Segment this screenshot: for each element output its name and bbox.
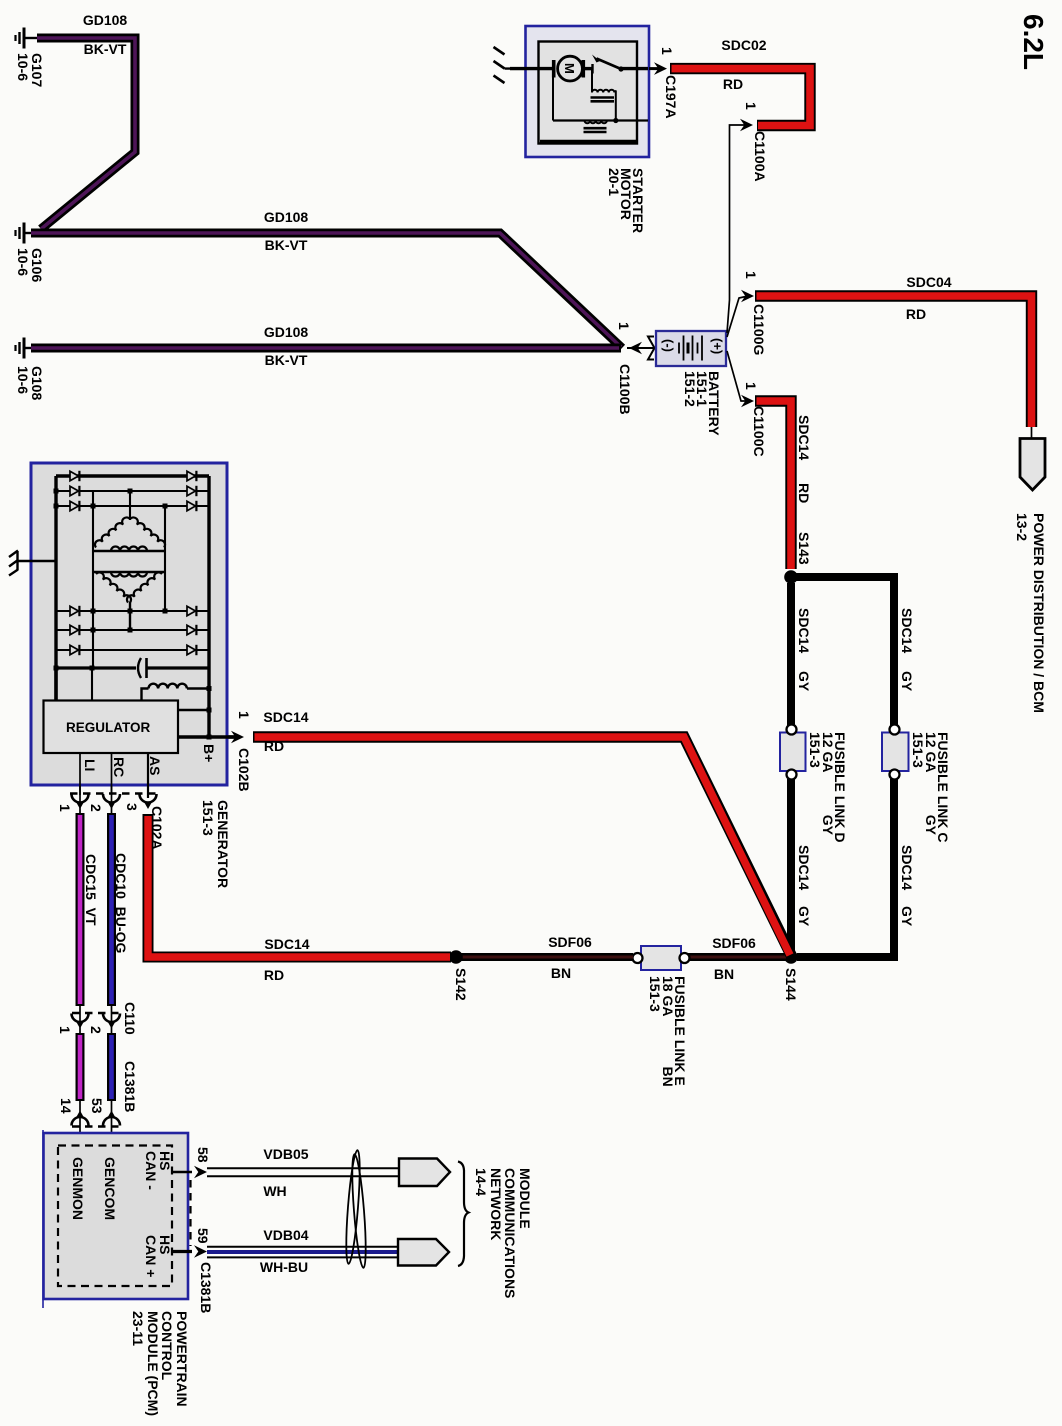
label pin 53 <box>90 1098 103 1114</box>
thin lead battery to C1100G <box>727 296 748 337</box>
label battery minus <box>662 339 675 352</box>
wire VT C110 to PCM <box>76 1033 85 1101</box>
label LI <box>83 759 96 771</box>
label SDC14 GY left lower <box>797 845 810 890</box>
ground G107 <box>16 28 39 49</box>
regulator U1 <box>44 701 179 754</box>
label FUSIBLE LINK D <box>809 732 846 842</box>
connector C1100A arrow <box>740 119 753 132</box>
powertrain control module PCM box <box>44 1133 189 1299</box>
label STARTER MOTOR 20-1 <box>607 168 644 233</box>
label C1100B <box>618 364 631 415</box>
label B+ <box>202 744 215 762</box>
label VDB04 <box>263 1229 308 1242</box>
label 1 at C1100B <box>617 322 630 330</box>
label FUSIBLE LINK C <box>912 732 949 842</box>
PCM inner dashed box <box>58 1146 172 1287</box>
label BK-VT wire 1 <box>84 43 127 56</box>
label pin 2 C102A <box>89 804 102 812</box>
fusible link E <box>633 946 690 970</box>
starter motor box <box>526 26 650 157</box>
label S142 <box>454 968 467 1001</box>
label pin 1 C102A <box>58 804 71 812</box>
fusible link C <box>882 725 909 780</box>
wire SDC04 RD <box>755 296 1032 427</box>
label battery plus <box>711 338 724 354</box>
label REGULATOR <box>66 721 150 734</box>
label GD108 wire 2 <box>264 211 308 224</box>
label BATTERY 151-1 151-2 <box>683 371 720 436</box>
label RD lower red <box>264 969 284 982</box>
label SDC04 <box>906 276 951 289</box>
wire SDC02 RD <box>670 69 810 126</box>
label SDC14 GY right lower <box>900 845 913 890</box>
splice S144 <box>784 950 798 964</box>
wire SDC14 RD from C1100C to S143 <box>755 401 791 569</box>
label SDC14 GY left upper <box>797 608 810 653</box>
label C1381B left <box>123 1061 136 1112</box>
label S143 <box>797 532 810 565</box>
battery <box>656 331 726 366</box>
label GENERATOR 151-3 <box>200 800 230 888</box>
label BN right <box>714 968 734 981</box>
label HS CAN - <box>144 1151 172 1190</box>
diode row 1 <box>56 474 209 478</box>
wire CDC15 VT pin1 <box>76 813 85 1006</box>
label 59 <box>196 1228 209 1244</box>
splice S142 <box>449 950 463 964</box>
fusible link D <box>780 725 806 780</box>
label C102B <box>237 748 250 792</box>
label FUSIBLE LINK E <box>649 976 686 1087</box>
label CDC15 VT <box>84 854 97 926</box>
label S144 <box>784 968 797 1001</box>
connector C1100B arrow <box>627 337 655 360</box>
label WH-BU <box>260 1261 308 1274</box>
label VDB05 <box>263 1148 308 1161</box>
vertical feeds to regulator <box>54 668 57 701</box>
label SDF06 right <box>712 937 756 950</box>
label C110 <box>123 1002 136 1035</box>
label RD vertical red <box>797 483 810 503</box>
delta winding 2 <box>93 571 165 573</box>
PCM pin 58 HS CAN - output <box>172 1166 207 1179</box>
label 1 at C1100A <box>744 102 757 110</box>
label WH <box>263 1185 286 1198</box>
pentagon connector VDB05 <box>399 1159 450 1187</box>
wire BU C110 to PCM <box>107 1033 116 1101</box>
label C1100G <box>752 304 765 355</box>
wire SDC14 GY S143 to fusible link D <box>787 583 795 727</box>
lower left diodes <box>70 606 79 616</box>
label AS <box>148 756 161 775</box>
wire SDC14 GY S143 to fusible link C <box>794 577 894 727</box>
label pin 3 C102A <box>125 803 138 811</box>
label SDC14 B+ wire <box>263 711 308 724</box>
label SDC14 lower red <box>264 938 309 951</box>
connector C102A dashed line and clips <box>70 786 160 814</box>
lead to power distribution connector <box>1031 427 1033 439</box>
right bus <box>207 476 210 737</box>
label pin 1 C110 <box>58 1026 71 1034</box>
label G107 <box>16 53 44 87</box>
regulator to bus link <box>178 709 209 711</box>
connector C1100G arrow <box>741 290 754 303</box>
label pin 2 C110 <box>89 1026 102 1034</box>
connector C1381B dashed line <box>189 1180 191 1246</box>
label POWERTRAIN CONTROL MODULE <box>131 1311 189 1416</box>
wire SDC14 RD C102A to S142 <box>148 814 451 957</box>
wire VDB05 WH twisted pair <box>207 1168 399 1176</box>
label 6.2L <box>1020 14 1046 70</box>
delta winding 1 <box>130 517 165 547</box>
hash marks left of starter motor <box>494 47 527 83</box>
label G108 <box>16 366 44 400</box>
ground G108 <box>16 338 39 359</box>
label M starter motor <box>563 63 576 74</box>
diode row 3 <box>56 505 209 507</box>
label GENMON <box>71 1157 84 1220</box>
B+ output line and connector C102B arrow <box>178 731 244 744</box>
label 58 <box>196 1147 209 1163</box>
connector C197A arrow <box>649 62 667 75</box>
wire GD108 BK-VT from G108 to C1100B <box>31 344 621 353</box>
label G106 <box>16 248 44 282</box>
wire SDC14 RD generator B+ to S144 <box>253 737 791 955</box>
ground G106 <box>16 223 39 244</box>
brace module communications network <box>458 1162 469 1267</box>
splice S143 <box>784 570 798 584</box>
label RC <box>112 757 125 777</box>
lower diode rows <box>56 610 209 612</box>
connector C110 <box>72 1006 121 1034</box>
label POWER DISTRIBUTION / BCM 13-2 <box>1014 513 1047 713</box>
regulator pins LI RC AS <box>79 753 81 795</box>
label BN left <box>551 967 571 980</box>
capacitor row <box>56 666 136 669</box>
label 1 at C1100C <box>744 382 757 390</box>
label pin 14 <box>59 1098 72 1114</box>
junction dots <box>54 489 212 740</box>
wire SDC14 GY link D to S144 <box>787 779 795 951</box>
label SDC14 vertical red <box>797 415 810 460</box>
wire GD108 BK-VT from G106 to C1100B <box>31 233 622 348</box>
inductor <box>149 684 187 689</box>
label RD B+ wire <box>264 740 284 753</box>
label SDC14 GY right upper <box>900 608 913 653</box>
wire CDC10 BU-OG pin2 <box>107 813 116 1006</box>
label RD SDC02 <box>723 78 743 91</box>
label BK-VT wire 3 <box>265 354 308 367</box>
wire GD108 BK-VT from G107 to G106 junction <box>37 38 135 229</box>
label 1 at C197A <box>660 47 673 55</box>
label GENCOM <box>103 1157 116 1220</box>
label GD108 wire 3 <box>264 326 308 339</box>
label C102A <box>150 806 163 850</box>
label C1100C <box>752 406 765 457</box>
label C1381B right <box>199 1262 212 1313</box>
label C197A <box>664 75 677 119</box>
diode row 2 <box>56 490 209 492</box>
label 1 at C1100G <box>744 271 757 279</box>
inner verticals <box>92 491 94 572</box>
wire SDF06 BN link E to S142 <box>461 953 633 961</box>
label GD108 wire 1 <box>83 14 127 27</box>
left bus <box>54 476 57 701</box>
generator box <box>31 463 227 785</box>
hash marks ground lead at generator <box>9 551 57 576</box>
label C1100A <box>753 131 766 182</box>
wire VDB04 WH-BU <box>207 1247 398 1258</box>
connector C1381B top clips <box>72 1100 121 1146</box>
label 1 at C102B <box>237 711 250 719</box>
label MODULE COMMUNICATIONS NETWORK 14-4 <box>474 1168 532 1298</box>
wire SDC14 GY link C to S144 <box>797 779 894 957</box>
thin lead battery to C1100C <box>727 351 748 401</box>
starter motor internals <box>510 55 648 133</box>
wire SDF06 BN S144 to link E <box>688 953 786 961</box>
twisted pair loops <box>344 1150 369 1268</box>
upper right diodes <box>187 471 196 481</box>
generator internals <box>44 471 212 798</box>
pentagon connector VDB04 <box>398 1239 449 1266</box>
label SDF06 left <box>548 936 592 949</box>
lower right diodes <box>187 606 196 616</box>
pentagon connector POWER DISTRIBUTION / BCM <box>1020 439 1045 491</box>
label SDC02 <box>721 39 766 52</box>
thin lead battery to C1100A <box>727 125 748 333</box>
connector C1100C arrow <box>741 395 754 408</box>
label RD SDC04 <box>906 308 926 321</box>
label CDC10 BU-OG <box>114 853 127 953</box>
upper left diodes <box>70 471 79 481</box>
label HS CAN + <box>144 1235 172 1277</box>
PCM pin 59 HS CAN + output <box>172 1245 207 1258</box>
B+ wire inside generator redraw <box>178 735 237 738</box>
label BK-VT wire 2 <box>265 239 308 252</box>
